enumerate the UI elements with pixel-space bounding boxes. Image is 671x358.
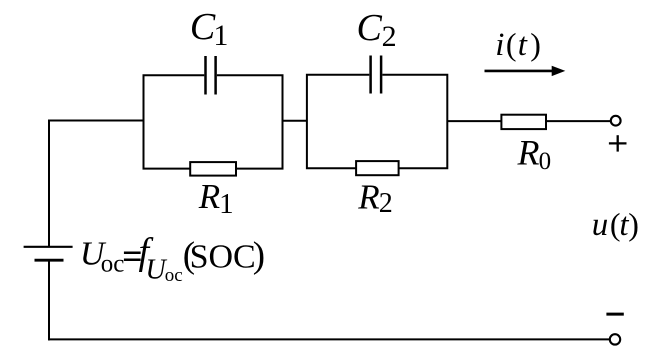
svg-text:0: 0	[539, 148, 552, 175]
svg-text:R: R	[198, 177, 220, 216]
svg-text:oc: oc	[165, 265, 183, 286]
label i(t)	[495, 26, 541, 63]
svg-text:R: R	[517, 132, 540, 172]
svg-text:C: C	[357, 7, 383, 49]
battery U_oc top plate	[24, 246, 73, 248]
battery U_oc bottom plate	[35, 259, 64, 262]
minus sign	[606, 313, 623, 316]
svg-text:): )	[530, 26, 541, 62]
label C2	[357, 7, 397, 53]
svg-text:u: u	[592, 207, 609, 243]
svg-text:1: 1	[213, 19, 228, 52]
svg-text:t: t	[518, 27, 528, 63]
label R2	[357, 177, 393, 219]
label u(t)	[592, 206, 639, 243]
current arrow	[485, 66, 566, 76]
wire top-left horizontal	[48, 120, 145, 122]
label Uoc = f_Uoc(SOC)	[80, 231, 265, 286]
resistor R2	[356, 161, 399, 175]
svg-text:): )	[253, 235, 265, 276]
svg-text:(: (	[506, 26, 517, 62]
svg-text:): )	[628, 206, 639, 242]
svg-text:R: R	[357, 177, 379, 216]
wire left vertical upper	[48, 120, 50, 247]
capacitor C1	[206, 56, 216, 95]
svg-text:i: i	[495, 27, 504, 63]
svg-text:oc: oc	[101, 251, 125, 278]
node RC1 loop wires	[144, 75, 283, 168]
wire between RC1 and RC2	[283, 120, 308, 122]
positive terminal	[611, 116, 621, 126]
wire R0 to positive terminal	[546, 120, 611, 122]
svg-text:1: 1	[219, 188, 234, 220]
wire bottom horizontal	[48, 338, 610, 340]
wire RC2 to R0	[447, 120, 502, 122]
svg-text:C: C	[190, 6, 216, 48]
negative terminal	[610, 334, 620, 344]
wire left vertical lower	[48, 260, 50, 340]
plus sign	[609, 135, 627, 151]
svg-text:SOC: SOC	[190, 238, 256, 275]
svg-text:2: 2	[382, 20, 397, 53]
label R1	[198, 177, 234, 220]
node RC2 loop wires	[307, 75, 447, 168]
svg-text:2: 2	[379, 188, 393, 219]
resistor R0	[501, 115, 546, 129]
label R0	[517, 132, 552, 175]
resistor R1	[190, 162, 236, 176]
capacitor C2	[371, 56, 382, 94]
label C1	[190, 6, 229, 52]
